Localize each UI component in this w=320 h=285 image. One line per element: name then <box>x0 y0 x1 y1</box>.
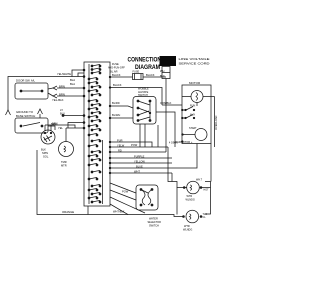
svg-text:YEL: YEL <box>58 126 63 130</box>
svg-text:DOOR SW. A/L: DOOR SW. A/L <box>16 79 36 83</box>
wire motor feed orn/blk <box>162 104 182 106</box>
fuse F1 <box>110 74 166 80</box>
wire box1 feed vertical <box>157 125 159 147</box>
svg-text:BLACK: BLACK <box>113 83 122 87</box>
base switch S2 <box>15 118 48 133</box>
ground arrow left <box>6 110 11 115</box>
label: LT BLU <box>60 108 65 115</box>
svg-text:BL/RD: BL/RD <box>112 101 120 105</box>
diagonal wires to selector switch <box>110 183 145 215</box>
timer T1 box <box>84 62 110 206</box>
svg-text:BLACK: BLACK <box>146 73 155 77</box>
svg-text:TMR: TMR <box>61 160 67 164</box>
label: BLACK left <box>112 73 121 77</box>
label: LINE VOLTAGE SERVICE CORD <box>179 57 210 66</box>
label: AUX <box>190 114 195 117</box>
wire valve bracket right <box>200 182 211 215</box>
wire mid into timer <box>68 123 84 129</box>
terminal block TB1 line-in (black) <box>160 56 177 79</box>
label: BL.AR <box>110 70 118 74</box>
wire purple <box>110 157 172 159</box>
wire timer to box1 low <box>110 117 133 119</box>
wire base switch right <box>48 126 55 130</box>
svg-text:WH.T: WH.T <box>196 178 203 181</box>
label: WHT valve top <box>196 178 203 181</box>
svg-text:SPIN: SPIN <box>42 151 48 155</box>
agitate switch S3 <box>133 97 156 125</box>
svg-text:WHT-BLK: WHT-BLK <box>113 210 125 214</box>
svg-text:BLK: BLK <box>41 148 46 152</box>
label: BRN YEL <box>52 122 63 131</box>
svg-text:SOL.: SOL. <box>43 155 49 159</box>
wire timer to box1 mid <box>110 106 133 108</box>
label: BRN <box>59 85 65 89</box>
wire timer bottom to return <box>87 206 89 215</box>
svg-text:WLNDG: WLNDG <box>186 198 195 201</box>
label: HOT <box>204 189 210 192</box>
timer left edge terminals <box>83 69 85 129</box>
connector arrow 2 <box>53 94 57 98</box>
label: YELW <box>117 143 125 147</box>
svg-text:AVO-FUN-OFF: AVO-FUN-OFF <box>108 67 125 70</box>
wire motor cap to band <box>172 144 197 169</box>
timer contacts <box>88 64 101 203</box>
svg-text:BL/WH: BL/WH <box>112 113 120 117</box>
label: START <box>189 127 197 130</box>
wire motor overload drop <box>214 97 216 148</box>
label: GROUND TO BASE SWITCH <box>16 110 35 118</box>
svg-text:BLA: BLA <box>70 82 75 86</box>
label: WOBBLE AGITATE SWITCH <box>138 88 149 98</box>
wire valve left return <box>176 188 178 215</box>
wire yellow <box>110 162 172 164</box>
svg-text:YEL-BLK: YEL-BLK <box>52 98 64 102</box>
svg-text:FUSE: FUSE <box>133 71 140 74</box>
wire blue <box>110 167 172 169</box>
svg-text:MOTOR: MOTOR <box>189 81 201 85</box>
svg-text:LINE VOLTAGE: LINE VOLTAGE <box>179 57 210 61</box>
motor start circle <box>182 129 207 141</box>
label: RD <box>118 148 122 152</box>
label: WH lead <box>160 69 165 78</box>
label: BL/RD <box>112 101 120 105</box>
label: BLACK right <box>146 73 155 77</box>
label: TMR MTR <box>61 160 67 168</box>
svg-text:SWITCH: SWITCH <box>149 225 159 228</box>
label: MOTOR <box>189 81 201 85</box>
wire brn to timer <box>57 87 84 89</box>
label: WATER SELECTOR SWITCH <box>148 218 162 228</box>
label: BRN <box>59 93 65 97</box>
label: PUR <box>117 138 123 142</box>
wire lt blu into timer <box>62 115 84 117</box>
selector switch S4 <box>136 185 158 210</box>
svg-text:WLNDG: WLNDG <box>183 228 192 231</box>
svg-text:YEL/WHITE: YEL/WHITE <box>57 72 71 76</box>
wire door switch to connectors <box>48 88 53 96</box>
motor left edge terminals <box>182 109 184 142</box>
label: WHT <box>134 169 140 173</box>
solenoid M2 (spin) <box>41 125 55 144</box>
wire right drop A <box>168 147 187 188</box>
label: FUSE AVO-FUN-OFF <box>108 63 125 70</box>
wire right drop B <box>171 173 173 182</box>
svg-text:WH: WH <box>160 69 164 73</box>
motor aux contact <box>182 115 195 119</box>
ground arrow 2 <box>38 109 43 118</box>
svg-text:ORN/BLK: ORN/BLK <box>160 101 172 105</box>
label: 4 CONN <box>169 143 178 145</box>
svg-text:ORANGE: ORANGE <box>62 210 74 214</box>
label: WTR VALVE HOT <box>186 195 195 202</box>
label: BLK BLK <box>70 78 75 86</box>
water valve hot V1 <box>183 181 202 194</box>
motor box M1 <box>182 85 211 144</box>
label: COLD WTR VALVE <box>183 225 192 232</box>
label: OVERLOAD vertical <box>214 115 218 130</box>
label: WHT-BLK <box>113 210 125 214</box>
connector arrow 1 <box>53 86 57 90</box>
svg-text:BL.AR: BL.AR <box>110 70 118 74</box>
wire timer motor to timer <box>66 127 84 129</box>
wire box1 bottom stubs <box>140 124 145 147</box>
svg-text:+ CAPACITOR +: + CAPACITOR + <box>173 140 193 144</box>
svg-text:BLU: BLU <box>60 111 65 115</box>
label: CAPACITOR <box>173 140 193 144</box>
timer internal bus wire <box>88 64 90 204</box>
label: PURPLE <box>134 154 145 158</box>
wire brn2 to timer <box>57 95 84 97</box>
title: CONNECTION DIAGRAM <box>128 57 162 72</box>
label: ORN/BLK <box>160 101 172 105</box>
label: SPIN SOL <box>41 148 49 159</box>
wire pur <box>110 142 152 147</box>
label: FUSE above <box>133 71 140 74</box>
wire yelw <box>110 146 168 148</box>
motor run contact <box>182 107 195 111</box>
label: BL/WH <box>112 113 120 117</box>
svg-text:BLA: BLA <box>70 78 75 82</box>
svg-text:POW: POW <box>122 190 129 194</box>
motor start winding <box>182 91 215 107</box>
svg-text:POW: POW <box>131 143 138 147</box>
label: ORANGE <box>62 210 74 214</box>
wire motor right to valve bracket <box>210 144 212 182</box>
label: YEL/WHITE <box>57 72 71 76</box>
svg-text:START: START <box>189 127 197 130</box>
label: CLD <box>203 213 208 219</box>
wire top pair into timer <box>72 70 84 77</box>
door switch S1 <box>15 83 48 99</box>
label: RUN <box>190 105 195 108</box>
svg-text:HOT: HOT <box>204 189 210 192</box>
label: BLACK wire upper <box>113 83 122 87</box>
wire wht <box>110 172 172 174</box>
wire yel/white top enclosure <box>8 77 84 111</box>
wire timer to box1 top <box>110 88 162 106</box>
svg-text:MTR: MTR <box>61 164 67 168</box>
label: YELLOW <box>134 159 145 163</box>
wire rd <box>110 151 166 153</box>
svg-text:BLK: BLK <box>160 74 165 78</box>
label: POW <box>131 143 138 147</box>
label: DOOR SW. A/L <box>16 79 36 83</box>
svg-text:BASE SWITCH: BASE SWITCH <box>16 114 35 118</box>
svg-text:BLACK: BLACK <box>112 73 121 77</box>
wire solenoid to timer <box>45 125 75 128</box>
wire box1 right to band <box>156 112 175 147</box>
label: POW2 <box>122 190 129 194</box>
wire left return vertical <box>37 150 184 217</box>
wire white lead from service cord down <box>165 79 167 153</box>
timer right edge terminals <box>109 76 111 174</box>
svg-text:CONNECTION: CONNECTION <box>128 57 162 64</box>
label: BLUE <box>136 164 143 168</box>
timer internal bus wire 2 <box>102 140 104 204</box>
svg-text:SERVICE CORD: SERVICE CORD <box>179 62 210 66</box>
label: BRN <box>51 122 57 126</box>
timer motor M3 <box>59 128 74 157</box>
svg-text:CL: CL <box>203 216 207 219</box>
label: YEL-BLK <box>52 98 64 102</box>
water valve cold V2 <box>183 210 202 223</box>
